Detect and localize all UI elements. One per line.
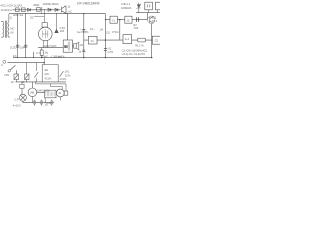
svg-text:C: C (1, 63, 3, 67)
svg-text:1): 1) (10, 15, 12, 19)
transformer T1 (1, 14, 10, 38)
junction dots top bus (17, 9, 68, 14)
contact S2b lever (34, 72, 38, 77)
wire meter bottom (31, 97, 33, 103)
svg-text:AB: AB (30, 91, 34, 95)
junction dot (151, 57, 152, 58)
fuse box B2 (88, 36, 97, 44)
wire motor bottom (59, 97, 61, 101)
svg-text:C1): C1) (106, 32, 110, 35)
junction dot (105, 39, 106, 40)
wire bus drop (43, 58, 45, 65)
box B7 (123, 35, 132, 44)
resistor R5 (138, 38, 145, 42)
wire Q2 collector (147, 13, 149, 20)
svg-text:1C: 1C (64, 45, 67, 49)
svg-text:1/4: 1/4 (100, 27, 104, 31)
capacitor C2 (24, 45, 27, 47)
svg-text:1A4C1)1C2: 1A4C1)1C2 (37, 90, 50, 93)
wire divider branch (104, 14, 106, 58)
wire bottom rail (23, 101, 54, 103)
junction dot (44, 62, 45, 63)
wire main ground bus (13, 57, 153, 59)
svg-text:1+1: 1+1 (125, 37, 130, 41)
svg-text:1C--: 1C-- (90, 27, 95, 31)
wire contact drops (16, 80, 26, 82)
terminal C (3, 60, 6, 63)
box B4 (125, 16, 132, 23)
wire Q2 emitter down (151, 24, 153, 58)
svg-text:(+C.: (+C. (68, 9, 73, 13)
capacitor C9 (50, 100, 53, 106)
output transformer B1 (63, 40, 72, 52)
box fuse lamp (20, 84, 24, 88)
box B5 (145, 2, 153, 10)
svg-text:11: 11 (68, 5, 71, 9)
wire mid rail (84, 39, 153, 41)
transistor Q1 (62, 6, 66, 14)
svg-text:1C4C1)x: 1C4C1)x (1, 8, 13, 12)
svg-text:Y1: Y1 (112, 19, 116, 23)
wire tube cathode to rail (38, 47, 63, 49)
switch K1 lever (9, 65, 15, 70)
lamp HL (19, 94, 26, 101)
wire meter to box (37, 91, 45, 93)
svg-text:R1.1 %: R1.1 % (135, 43, 144, 47)
speaker SP (74, 42, 79, 49)
wire tube plate feed (43, 10, 45, 28)
svg-text:1/14: 1/14 (19, 46, 25, 50)
svg-text:C.P: C.P (14, 98, 19, 102)
svg-text:4×1C4: 4×1C4 (13, 104, 21, 108)
box right of motor (64, 91, 68, 95)
svg-text:12AU7(1)%: 12AU7(1)% (43, 44, 57, 48)
wire output transformer feed (67, 14, 69, 40)
relay frame (42, 65, 58, 82)
svg-text:D3: D3 (30, 15, 34, 19)
svg-text:6V: 6V (10, 31, 13, 35)
svg-text:C.C1)%C4: C.C1)%C4 (52, 54, 65, 58)
meter M (28, 88, 37, 97)
svg-text:1%C: 1%C (42, 54, 48, 58)
wire feedback branch (119, 20, 121, 40)
motor M2 (56, 89, 64, 97)
capacitor C8 (40, 100, 43, 106)
svg-text:1N4001-BG2x: 1N4001-BG2x (43, 2, 60, 6)
wire top bus (9, 13, 105, 15)
svg-text:+C-1).CC-.C1.4C%1: +C-1).CC-.C1.4C%1 (122, 52, 146, 56)
capacitor C7 (33, 100, 36, 106)
wire switch drop (15, 70, 17, 74)
svg-text:1C%: 1C% (65, 73, 71, 77)
grid cap box (42, 23, 47, 28)
svg-text:C1N: C1N (4, 73, 9, 77)
svg-text:4k1: 4k1 (44, 68, 49, 72)
svg-text:1/2: 1/2 (11, 81, 15, 84)
capacitor C4 (82, 50, 85, 52)
wire lower feed line (8, 62, 45, 64)
junction dot (41, 57, 42, 58)
diode D2 (48, 8, 51, 11)
svg-text:ZD41: ZD41 (33, 3, 40, 7)
svg-text:C7%: C7% (108, 50, 114, 54)
wire screen divider branch (83, 14, 85, 58)
resistor R1 (16, 8, 20, 12)
svg-text:C.%: C.% (36, 51, 42, 55)
svg-text:7C8: 7C8 (133, 26, 138, 30)
svg-text:C2: C2 (155, 39, 159, 43)
junction dot (83, 57, 84, 58)
svg-text:N1.1: N1.1 (152, 19, 158, 23)
svg-text:1A1: 1A1 (65, 70, 70, 74)
svg-text:HX-VB013AFM: HX-VB013AFM (77, 2, 100, 6)
box B6 (155, 2, 161, 10)
svg-text:1%: 1% (80, 44, 84, 47)
diode D1 (28, 8, 31, 11)
wire vertical filter cap branch 1 (17, 14, 19, 58)
contact S3 lever (60, 71, 64, 76)
node J1 (41, 7, 43, 14)
svg-text:4C1%: 4C1% (44, 77, 52, 81)
junction dot (105, 57, 106, 58)
zener D4 (138, 3, 140, 13)
junction dot (83, 13, 84, 14)
svg-text:JZ: JZ (127, 19, 130, 23)
svg-text:1E1: 1E1 (152, 16, 157, 20)
wire regulator row (105, 19, 147, 21)
svg-text:4C8: 4C8 (60, 30, 65, 33)
resistor R2 (22, 8, 26, 12)
svg-text:220k 4x1: 220k 4x1 (13, 13, 24, 17)
diode D3 (55, 8, 58, 11)
box B3 (110, 16, 117, 23)
svg-text:C1.-C%-1)1CM%)4C1: C1.-C%-1)1CM%)4C1 (122, 48, 148, 52)
svg-text:1a: 1a (79, 50, 82, 53)
svg-text:1600H%: 1600H% (121, 6, 132, 10)
wire lamp branch (21, 82, 23, 85)
junction dots ground bus (17, 19, 106, 58)
wire hatch box drop (44, 98, 46, 103)
wire meter branch (31, 82, 33, 88)
capacitor C3 (82, 29, 85, 31)
svg-text:1C2C: 1C2C (10, 46, 17, 50)
vacuum tube V1 (39, 27, 53, 41)
svg-text:C*1/4: C*1/4 (112, 30, 119, 34)
box B8 (152, 36, 160, 44)
wire stubs (149, 10, 158, 13)
svg-text:1%: 1% (13, 54, 17, 58)
wire cathode resistor branch (41, 48, 43, 58)
transistor Q2 (148, 16, 155, 23)
svg-text:1C1%: 1C1% (60, 78, 67, 81)
wire component row top-left (13, 9, 61, 11)
capacitor C1 (16, 45, 19, 47)
svg-text:1k 3AX: 1k 3AX (14, 4, 23, 8)
wire top-right rail (136, 12, 160, 14)
svg-text:42: 42 (58, 91, 61, 95)
wire vertical filter cap branch 2 (25, 14, 27, 58)
wire collector line (16, 81, 67, 83)
contact S2 (25, 74, 30, 80)
wire third branch (35, 63, 37, 82)
wire stub branch 3 (33, 52, 35, 58)
svg-text:N.1: N.1 (108, 46, 112, 50)
resistor R4 (40, 50, 43, 55)
svg-text:F1: F1 (91, 39, 95, 43)
resistor R3 (37, 8, 41, 12)
neon indicator N1 (56, 14, 58, 30)
wire cluster link (34, 15, 44, 17)
junction dot (119, 19, 120, 20)
svg-text:1kN: 1kN (44, 72, 49, 76)
capacitor C6 (137, 17, 139, 22)
contact S1 (14, 74, 19, 80)
label box B9 (45, 90, 56, 98)
wire upper jog (35, 82, 66, 91)
svg-text:1a C1-4%: 1a C1-4% (77, 30, 89, 34)
capacitor C5 (104, 49, 107, 51)
wire to speaker (72, 45, 73, 47)
